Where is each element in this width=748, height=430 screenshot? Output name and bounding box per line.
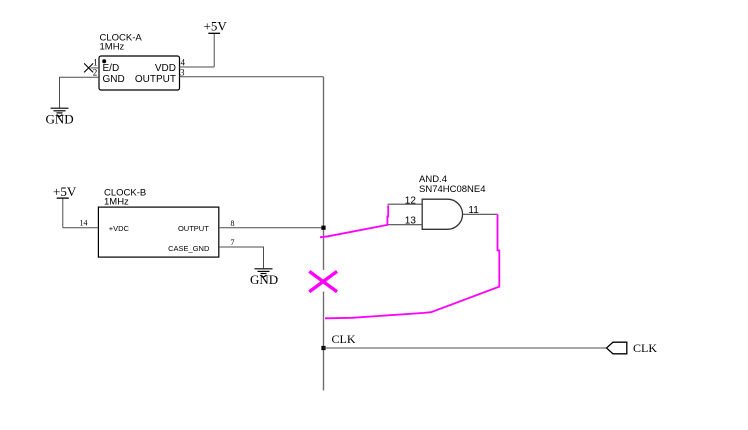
power symbol +5V (CLOCK-B) — [53, 184, 77, 228]
svg-text:14: 14 — [80, 218, 88, 227]
junction dot (pin8/trunk) — [321, 226, 325, 230]
svg-text:OUTPUT: OUTPUT — [178, 224, 209, 233]
ground symbol (CLOCK-B) — [255, 269, 273, 277]
svg-text:1MHz: 1MHz — [104, 197, 129, 208]
rubber-band wire (magenta) trunk to AND inputs — [320, 205, 388, 237]
off-page connector CLK — [607, 342, 627, 354]
svg-text:+5V: +5V — [53, 184, 77, 199]
no-connect X on pin 1 — [84, 63, 93, 72]
wire trunk upper segment — [323, 77, 325, 270]
svg-text:8: 8 — [231, 219, 235, 228]
wire trunk lower segment — [323, 292, 325, 391]
wire pin4 VDD to +5V — [180, 66, 215, 68]
svg-text:CLK: CLK — [332, 332, 356, 346]
oscillator CLOCK-A body — [99, 56, 180, 90]
svg-text:4: 4 — [181, 58, 186, 68]
svg-text:1MHz: 1MHz — [100, 42, 125, 53]
AND gate AND.4 body — [422, 199, 462, 229]
svg-text:13: 13 — [405, 216, 417, 227]
ground symbol (CLOCK-A GND) — [51, 108, 69, 116]
svg-text:2: 2 — [93, 68, 98, 78]
svg-text:7: 7 — [231, 238, 235, 247]
wire pin8 OUTPUT to trunk — [219, 227, 324, 229]
pin 11 stub — [463, 213, 498, 215]
svg-text:CASE_GND: CASE_GND — [168, 244, 210, 253]
svg-text:OUTPUT: OUTPUT — [135, 74, 176, 85]
wire pin7 CASE_GND to ground — [219, 247, 264, 268]
wire CLK net — [324, 347, 607, 349]
svg-text:VDD: VDD — [155, 63, 176, 74]
svg-text:E/D: E/D — [103, 63, 120, 74]
pin 12 stub — [388, 203, 423, 205]
junction dot (CLK/trunk) — [321, 346, 325, 350]
wire +5V to pin 14 — [63, 227, 99, 229]
svg-text:GND: GND — [46, 112, 74, 127]
net-break X marker (magenta) — [309, 271, 337, 291]
pin 13 stub — [388, 224, 423, 226]
oscillator CLOCK-B body — [98, 207, 218, 257]
svg-text:SN74HC08NE4: SN74HC08NE4 — [419, 184, 486, 195]
svg-text:1: 1 — [93, 58, 98, 68]
power symbol +5V (CLOCK-A) — [204, 18, 228, 67]
svg-text:11: 11 — [468, 205, 479, 216]
rubber-band wire (magenta) AND output to trunk — [325, 214, 499, 318]
svg-text:+5V: +5V — [204, 18, 228, 33]
svg-text:+VDC: +VDC — [109, 224, 130, 233]
svg-text:3: 3 — [180, 68, 185, 78]
svg-text:GND: GND — [250, 272, 278, 287]
wire pin3 OUTPUT to trunk — [180, 76, 324, 78]
wire pin2 GND to ground — [60, 77, 100, 108]
svg-text:12: 12 — [405, 196, 417, 207]
pin 1 stub (E/D) — [91, 67, 100, 69]
svg-text:CLK: CLK — [633, 341, 657, 355]
svg-text:GND: GND — [103, 74, 125, 85]
